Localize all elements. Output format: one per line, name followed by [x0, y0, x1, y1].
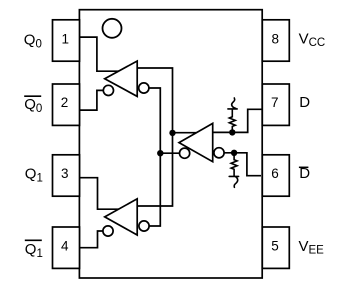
- wire receiver inverted output to rail C: [160, 152, 184, 154]
- pin 8 box: [262, 20, 289, 61]
- resistor R2 (termination on D-bar): [231, 153, 237, 177]
- overline of D-bar: [299, 166, 309, 168]
- pin 3 box: [53, 155, 80, 196]
- junction node D-bar input / resistor R2: [231, 150, 237, 156]
- svg-text:7: 7: [271, 95, 279, 110]
- svg-text:6: 6: [271, 166, 279, 181]
- bubble U3 inverting input: [214, 148, 224, 158]
- pin 1 box: [53, 20, 80, 61]
- resistor R1 (termination on D): [229, 109, 235, 132]
- pin 4 box: [53, 227, 80, 268]
- pin 7 box: [262, 84, 289, 125]
- receiver U3 (center input receiver): [179, 123, 213, 161]
- svg-text:2: 2: [61, 95, 69, 110]
- wire pin4 to bottom buffer inverted output bubble: [79, 231, 108, 248]
- wire rail C: top buffer bubble input down to bottom buffer bubble input: [144, 88, 161, 226]
- bubble U3 inverted output: [180, 148, 190, 158]
- buffer U2 (bottom output buffer): [105, 199, 138, 235]
- svg-text:3: 3: [61, 166, 69, 181]
- bubble U1 inverting input: [139, 83, 149, 93]
- svg-text:8: 8: [271, 32, 279, 47]
- wire rail T: top buffer input down to bottom buffer input: [137, 68, 172, 206]
- junction node D input / resistor R1: [229, 129, 235, 135]
- wire pin7 D to receiver top input: [213, 109, 263, 132]
- wire pin1 to top buffer output: [80, 37, 122, 71]
- bubble U2 inverted output: [103, 226, 113, 236]
- overline of Q0-bar: [24, 95, 41, 97]
- svg-text:1: 1: [62, 32, 70, 47]
- svg-text:5: 5: [271, 238, 279, 253]
- bubble U2 inverting input: [139, 221, 149, 231]
- package outline: [79, 10, 262, 278]
- pin-1 indicator circle: [103, 19, 122, 38]
- pin 2 box: [53, 84, 80, 125]
- junction node rail T / receiver output: [169, 130, 175, 136]
- buffer U1 (top output buffer): [105, 61, 138, 96]
- wire pin6 D-bar to receiver bubble input: [219, 153, 261, 176]
- svg-text:D: D: [299, 94, 310, 111]
- break squiggle above R1: [228, 98, 237, 109]
- bubble U1 inverted output: [103, 85, 113, 95]
- junction node rail C / receiver inverted output: [157, 150, 163, 156]
- pin 6 box: [262, 155, 289, 196]
- overline of Q1-bar: [25, 239, 42, 241]
- break squiggle below R2: [229, 176, 238, 187]
- wire pin2 to top buffer inverted output bubble: [80, 90, 109, 110]
- wire pin3 to bottom buffer output: [79, 178, 121, 210]
- wire receiver true output to rail T: [173, 132, 198, 134]
- svg-text:4: 4: [61, 238, 69, 253]
- pin 5 box: [262, 227, 289, 268]
